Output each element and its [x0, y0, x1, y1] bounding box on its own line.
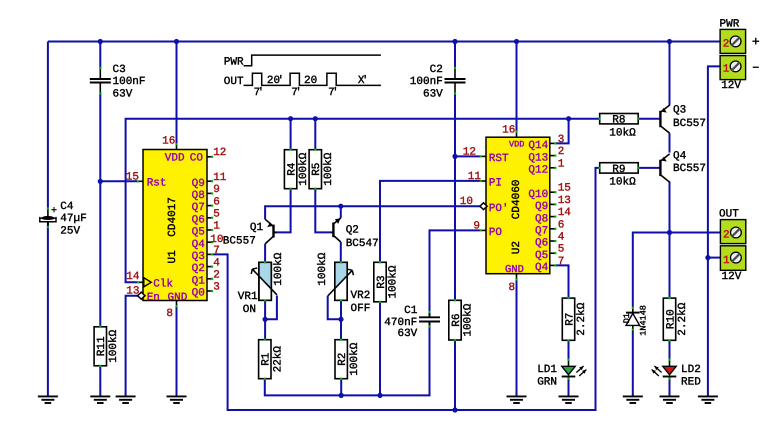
svg-text:VR2: VR2 [351, 290, 371, 302]
U1 pin 8 GND (bottom) [166, 301, 177, 321]
wire Q2 collector to VR2 [340, 242, 342, 262]
U1 pin 6 Q7 [192, 196, 220, 214]
ground [698, 396, 718, 403]
wire VDD drop to Q3 emitter [669, 42, 671, 106]
resistor R5 100kΩ [309, 149, 335, 190]
svg-text:100kΩ: 100kΩ [317, 252, 329, 285]
svg-text:100kΩ: 100kΩ [349, 342, 361, 375]
U1 pin 1 Q5 [192, 221, 221, 239]
svg-text:20': 20' [267, 75, 284, 87]
svg-text:12: 12 [213, 147, 226, 159]
svg-text:Q12: Q12 [528, 165, 548, 177]
wire R8 to Q3 base [638, 118, 660, 120]
svg-text:100kΩ: 100kΩ [273, 252, 285, 285]
svg-text:13: 13 [126, 285, 139, 297]
wire to OUT pin 1 [708, 257, 721, 259]
junction timing bus/R2 [339, 393, 344, 398]
wire Q1 collector to VR1 [264, 244, 266, 262]
wire D1 anode to ground [632, 331, 634, 397]
wire R7 to LD1 [568, 340, 570, 359]
junction bottom bus/R6 [452, 407, 457, 412]
svg-text:7: 7 [558, 256, 565, 268]
svg-text:Q5: Q5 [192, 227, 205, 239]
wire U2 PO (pin 9) to C1 top [430, 230, 481, 316]
svg-text:LD1: LD1 [537, 364, 557, 376]
svg-text:R3: R3 [376, 275, 388, 288]
svg-text:Q4: Q4 [535, 262, 549, 274]
resistor R7 2.2kΩ [562, 297, 588, 341]
svg-text:Q4: Q4 [192, 239, 206, 251]
wire clock rail (U2 Q14 to U1 Clk, R4, R5, R8) [126, 119, 600, 283]
svg-text:3: 3 [213, 282, 220, 294]
svg-text:RST: RST [489, 153, 509, 165]
svg-text:VDD: VDD [165, 152, 185, 164]
ground [660, 396, 680, 403]
svg-text:Q0: Q0 [192, 288, 205, 300]
svg-text:1: 1 [723, 64, 730, 76]
svg-text:15: 15 [558, 183, 571, 195]
U2 pin 12 RST [463, 146, 509, 165]
junction clock rail/R5 [313, 116, 318, 121]
svg-text:3: 3 [558, 134, 565, 146]
svg-text:16: 16 [162, 135, 175, 147]
svg-text:C1: C1 [404, 305, 418, 317]
U2 pin 2 Q13 [528, 146, 564, 164]
svg-text:RED: RED [681, 376, 701, 388]
wire R6 bottom to bottom bus [454, 340, 456, 410]
svg-text:10: 10 [460, 196, 473, 208]
svg-text:R2: R2 [337, 353, 349, 366]
svg-text:BC557: BC557 [223, 235, 256, 247]
svg-text:100kΩ: 100kΩ [108, 329, 120, 362]
wire U2 Q4 (pin 7) to R7 top [556, 265, 569, 298]
wire R4 top [290, 119, 292, 150]
svg-text:Q14: Q14 [528, 140, 548, 152]
U2 pin 6 Q7 [535, 219, 564, 237]
junction VDD/C3 [98, 39, 103, 44]
junction VR1/R1 [263, 317, 268, 322]
ground [559, 396, 579, 403]
wire VDD drop to U2 pin 16 [516, 42, 518, 132]
svg-text:Rst: Rst [147, 177, 167, 189]
svg-text:R9: R9 [612, 164, 625, 176]
resistor R4 100kΩ [284, 149, 310, 190]
svg-text:R8: R8 [612, 115, 625, 127]
U2 pin 11 PI [468, 171, 502, 190]
svg-text:U1: U1 [167, 250, 179, 264]
svg-text:Q3: Q3 [192, 251, 205, 263]
svg-text:20: 20 [304, 75, 317, 87]
wire VDD drop to C2 [454, 42, 456, 69]
capacitor C2 100nF 63V [410, 64, 466, 101]
svg-text:Q2: Q2 [346, 225, 359, 237]
svg-text:Q1: Q1 [250, 222, 264, 234]
wire R11 to ground [99, 366, 101, 397]
wire VR1 wiper return [265, 296, 277, 320]
transistor Q1 BC557 (PNP) [223, 219, 277, 247]
svg-text:D1: D1 [622, 313, 632, 323]
svg-text:2: 2 [213, 270, 220, 282]
transistor Q2 BC547 (NPN) [331, 218, 378, 250]
junction clock rail/Q14 [566, 116, 571, 121]
wire VR2 node (VR2 bottom, wiper, R2 top) [340, 300, 342, 339]
wire C4 to ground [47, 222, 49, 397]
wire VR2 wiper return [328, 296, 341, 319]
svg-text:7: 7 [213, 245, 220, 257]
svg-text:X': X' [358, 75, 369, 87]
svg-text:2.2kΩ: 2.2kΩ [677, 302, 689, 335]
junction GND/OUT1 [705, 255, 710, 260]
svg-text:R7: R7 [564, 313, 576, 326]
svg-text:BC557: BC557 [673, 163, 706, 175]
svg-text:U2: U2 [511, 241, 523, 254]
svg-text:10kΩ: 10kΩ [609, 177, 636, 189]
svg-text:PO': PO' [489, 203, 509, 215]
svg-text:R11: R11 [96, 336, 108, 356]
svg-text:10: 10 [210, 234, 223, 246]
svg-text:1: 1 [213, 221, 220, 233]
U2 pin 15 Q10 [528, 183, 571, 201]
wire R5 bottom to Q2 base [315, 187, 332, 232]
svg-text:Q8: Q8 [192, 190, 205, 202]
U2 pin 7 Q4 [535, 256, 564, 274]
junction VDD/C2 [452, 39, 457, 44]
svg-text:8: 8 [166, 308, 173, 320]
svg-text:GRN: GRN [537, 376, 557, 388]
svg-text:63V: 63V [113, 88, 133, 100]
wire U1 En (pin 13) to ground [126, 296, 138, 397]
ground [623, 396, 643, 403]
svg-text:Q6: Q6 [535, 238, 548, 250]
capacitor C4 47uF 25V (electrolytic) [40, 201, 87, 238]
svg-text:47µF: 47µF [60, 213, 86, 225]
svg-text:4: 4 [213, 257, 220, 269]
svg-text:R6: R6 [451, 314, 463, 327]
svg-text:100nF: 100nF [410, 76, 443, 88]
timing diagram PWR waveform [224, 55, 381, 68]
svg-text:LD2: LD2 [681, 364, 701, 376]
capacitor C3 100nF 63V [90, 64, 146, 101]
svg-text:+: + [752, 35, 760, 50]
wire Q3 collector to Q4 emitter [669, 133, 671, 152]
resistor R8 10kΩ [599, 114, 640, 140]
svg-text:CO: CO [190, 152, 204, 164]
svg-text:4: 4 [558, 232, 565, 244]
wire OUT pin 2 to D1 cathode (node OUT2) [633, 233, 721, 307]
svg-text:R5: R5 [311, 163, 323, 176]
ground [167, 396, 187, 403]
junction VDD/U1 [174, 39, 179, 44]
U2 pin 13 Q9 [535, 195, 571, 213]
svg-text:OUT: OUT [224, 76, 244, 88]
wire LD1 to ground [568, 378, 570, 396]
transistor Q3 BC557 (PNP) [660, 105, 706, 134]
U1 pin 3 Q0 [192, 282, 220, 300]
svg-text:ON: ON [243, 304, 256, 316]
svg-text:VDD: VDD [509, 139, 524, 149]
svg-text:Q9: Q9 [535, 201, 548, 213]
wire U2 GND (pin 8) to ground [516, 280, 518, 397]
wire VDD drop to U1 pin 16 [176, 42, 178, 145]
svg-text:Q1: Q1 [192, 275, 206, 287]
op-amp U2 CD4060 counter IC body [486, 137, 550, 276]
U2 pin 14 Q8 [535, 207, 571, 225]
svg-text:GND: GND [168, 292, 188, 304]
svg-text:CD4017: CD4017 [167, 197, 179, 237]
svg-text:8: 8 [509, 282, 516, 294]
U1 pin 16 VDD (top) [162, 135, 178, 149]
capacitor C1 470nF 63V [384, 305, 440, 340]
junction RST node [452, 154, 457, 159]
wire C3 to U1 Rst and R11 (node Rst) [99, 93, 101, 327]
wire U1 GND (pin 8) to ground [176, 307, 178, 397]
resistor R2 100kΩ [335, 339, 361, 380]
svg-text:100nF: 100nF [113, 76, 146, 88]
svg-text:11: 11 [468, 171, 482, 183]
U1 pin 7 Q3 [192, 245, 220, 263]
svg-text:Q6: Q6 [192, 214, 205, 226]
svg-text:Q13: Q13 [528, 152, 548, 164]
svg-text:Clk: Clk [153, 278, 173, 290]
U1 pin 12 CO output stub [207, 147, 226, 159]
junction timing bus/R3 [377, 393, 382, 398]
ground [507, 396, 527, 403]
U2 pin 10 PO' [460, 196, 509, 215]
svg-text:2: 2 [723, 39, 730, 51]
svg-text:12: 12 [463, 146, 476, 158]
wire emitter rail Q1/Q2 to U2 PO' (pin 10) [265, 206, 480, 219]
svg-text:R10: R10 [665, 309, 677, 329]
svg-text:7': 7' [254, 87, 265, 99]
svg-text:BC557: BC557 [673, 118, 706, 130]
svg-text:63V: 63V [397, 328, 417, 340]
wire RST junction to U2 pin 12 [455, 155, 480, 157]
junction OUT2/Q4 collector [667, 230, 672, 235]
svg-text:Q7: Q7 [535, 226, 548, 238]
svg-text:En: En [147, 292, 160, 304]
svg-text:Q8: Q8 [535, 213, 548, 225]
svg-text:C3: C3 [113, 64, 126, 76]
U2 pin 1 Q12 [528, 158, 564, 176]
LED LD1 GRN (green) [537, 359, 586, 389]
svg-text:+: + [51, 206, 57, 217]
junction VDD/U2 [514, 39, 519, 44]
wire Rst junction to U1 pin 15 [100, 180, 137, 182]
svg-text:100kΩ: 100kΩ [388, 265, 400, 298]
svg-text:7': 7' [291, 87, 302, 99]
svg-text:–: – [752, 59, 760, 74]
U2 pin 8 GND (bottom) [509, 274, 518, 294]
U1 pin 4 Q2 [192, 257, 221, 275]
svg-text:16: 16 [502, 124, 515, 136]
svg-text:12V: 12V [722, 271, 742, 283]
U1 pin 5 Q6 [192, 209, 220, 227]
resistor R1 22kΩ [259, 339, 285, 380]
svg-text:Q10: Q10 [528, 189, 548, 201]
wire Q4 collector to OUT pin 2 node and R10 [669, 182, 671, 299]
svg-text:R1: R1 [261, 352, 273, 366]
svg-text:OUT: OUT [719, 208, 739, 220]
svg-text:BC547: BC547 [346, 238, 379, 250]
svg-text:PWR: PWR [224, 56, 244, 68]
junction VDD/Q3 [667, 39, 672, 44]
svg-text:22kΩ: 22kΩ [272, 346, 284, 373]
svg-text:R4: R4 [286, 162, 298, 176]
svg-text:9: 9 [473, 220, 480, 232]
wire R3 bottom [379, 302, 381, 396]
transistor Q4 BC557 (PNP) [660, 151, 706, 183]
svg-text:Q5: Q5 [535, 250, 548, 262]
svg-text:Q4: Q4 [673, 151, 687, 163]
svg-text:10kΩ: 10kΩ [609, 128, 636, 140]
wire R5 top [314, 119, 316, 150]
wire LD2 to ground [669, 378, 671, 396]
U1 pin 13 En (active-low enable) [126, 285, 160, 303]
svg-text:Q3: Q3 [673, 105, 686, 117]
junction PO' rail/Q2 [338, 204, 343, 209]
svg-text:7': 7' [328, 87, 339, 99]
svg-text:PO: PO [489, 227, 503, 239]
wire R3 top to U2 PI (pin 11) [380, 181, 480, 262]
svg-text:11: 11 [213, 172, 227, 184]
U1 pin 9 Q8 [192, 184, 220, 202]
wire R2 bottom [340, 379, 342, 396]
resistor R11 100kΩ [94, 326, 120, 367]
svg-text:100kΩ: 100kΩ [323, 152, 335, 185]
svg-text:Q9: Q9 [192, 178, 205, 190]
svg-text:2.2kΩ: 2.2kΩ [576, 302, 588, 335]
svg-text:5: 5 [558, 244, 565, 256]
resistor R6 100kΩ [449, 299, 475, 341]
svg-text:PI: PI [489, 178, 502, 190]
U1 pin 15 Rst [126, 172, 167, 190]
wire PWR pin 1 to OUT pin 1 and ground (GND net right) [708, 66, 720, 396]
LED LD2 RED (red) [652, 359, 702, 389]
wire Q2 emitter to rail [340, 206, 342, 218]
U1 pin 2 Q1 [192, 270, 220, 288]
wire VDD drop to C3 [99, 42, 101, 69]
U2 pin 16 VDD (top) [502, 124, 518, 137]
svg-text:14: 14 [126, 271, 140, 283]
svg-text:OFF: OFF [351, 303, 371, 315]
svg-text:2: 2 [723, 230, 730, 242]
U1 pin 10 Q4 [192, 234, 224, 251]
svg-text:C2: C2 [430, 64, 443, 76]
svg-text:VR1: VR1 [238, 291, 258, 303]
wire VR1 node (VR1 bottom, wiper, R1 top) [264, 300, 266, 339]
resistor R10 2.2kΩ [663, 297, 689, 341]
svg-text:25V: 25V [60, 226, 80, 238]
timing diagram OUT waveform [224, 73, 381, 88]
svg-text:2: 2 [558, 146, 565, 158]
U1 pin 11 Q9 [192, 172, 227, 190]
wire U1 Q3 (pin 7) to bottom bus and R9 [213, 168, 600, 410]
svg-text:Q7: Q7 [192, 202, 205, 214]
svg-text:13: 13 [558, 195, 571, 207]
svg-text:Q2: Q2 [192, 263, 205, 275]
svg-text:5: 5 [213, 209, 220, 221]
diode D1 1N4148 [622, 305, 649, 336]
terminal block PWR (12V input) [720, 19, 746, 92]
wire R9 to Q4 base [638, 167, 660, 169]
svg-text:1: 1 [558, 158, 565, 170]
U2 pin 4 Q6 [535, 232, 565, 250]
wire VDD drop to C4 column [47, 42, 49, 208]
U1 pin 14 Clk (clock input) [126, 271, 173, 290]
wire U2 Q14 pin 3 to clock rail [556, 119, 569, 144]
svg-text:9: 9 [213, 184, 220, 196]
wire VDD top rail [48, 41, 720, 43]
svg-text:14: 14 [558, 207, 572, 219]
op-amp U1 CD4017 counter IC body [143, 150, 207, 304]
resistor R9 10kΩ [599, 163, 640, 189]
U2 pin 9 PO [473, 220, 502, 239]
wire R4 bottom to Q1 base [274, 187, 290, 232]
U2 pin 5 Q5 [535, 244, 564, 262]
wire R10 to LD2 [669, 340, 671, 359]
ground [116, 396, 136, 403]
svg-text:GND: GND [505, 264, 524, 276]
svg-text:CD4060: CD4060 [511, 180, 523, 220]
trimmer VR2 100k OFF [317, 252, 370, 314]
svg-text:15: 15 [126, 172, 139, 184]
ground [38, 396, 58, 403]
svg-text:100kΩ: 100kΩ [463, 303, 475, 336]
wire timing bus R1 R2 R3 C1 bottoms [265, 322, 430, 395]
svg-text:1N4148: 1N4148 [639, 305, 649, 336]
junction VR2/R2 [338, 317, 343, 322]
svg-text:6: 6 [558, 219, 565, 231]
trimmer VR1 100k ON [238, 252, 285, 315]
junction clock rail/R4 [288, 116, 293, 121]
wire C2 to U2 RST (pin 12) and R6 top [454, 93, 456, 300]
ground [90, 396, 110, 403]
svg-text:6: 6 [213, 196, 220, 208]
svg-text:63V: 63V [423, 88, 443, 100]
U2 pin 3 Q14 [528, 134, 564, 152]
terminal block OUT [719, 208, 746, 282]
svg-text:1: 1 [723, 255, 730, 267]
junction Rst node [98, 179, 103, 184]
svg-text:C4: C4 [60, 201, 74, 213]
svg-text:12V: 12V [721, 80, 741, 92]
resistor R3 100kΩ [374, 261, 400, 303]
